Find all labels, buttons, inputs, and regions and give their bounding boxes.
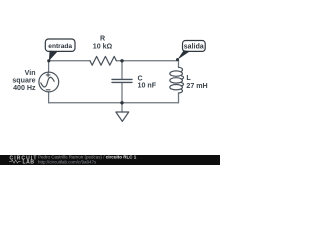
inductor L1 coil — [170, 67, 184, 93]
wire top rail left (node to resistor) — [49, 60, 90, 62]
svg-text:entrada: entrada — [48, 43, 72, 50]
svg-text:10 nF: 10 nF — [138, 82, 157, 90]
ground symbol — [116, 112, 129, 121]
svg-text:LAB: LAB — [23, 159, 35, 165]
svg-text:salida: salida — [184, 43, 204, 50]
capacitor C1 plates — [112, 79, 132, 82]
node junction bottom (capacitor/bottom rail) — [120, 101, 123, 104]
voltage source sine wave — [40, 77, 54, 88]
wire capacitor branch top — [121, 61, 123, 79]
wire right branch top — [178, 61, 180, 68]
footer bar — [0, 155, 220, 165]
wire top rail right (resistor to corner) — [116, 60, 178, 62]
wire left branch top — [48, 61, 50, 72]
wire capacitor branch bottom — [121, 83, 123, 103]
svg-text:http://circuitlab.com/c/9a847s: http://circuitlab.com/c/9a847s — [38, 159, 97, 164]
svg-text:R: R — [100, 35, 105, 43]
wire left branch bottom — [48, 92, 50, 103]
svg-text:27 mH: 27 mH — [186, 82, 207, 90]
footer CircuitLab logo — [9, 156, 37, 166]
node entrada tip dot — [47, 59, 50, 62]
voltage source minus sign — [46, 89, 50, 91]
node junction top (capacitor/top rail) — [120, 59, 123, 62]
svg-text:400 Hz: 400 Hz — [13, 84, 36, 92]
wire bottom rail — [49, 102, 179, 104]
callout salida box — [183, 41, 206, 52]
voltage source V1 circle — [39, 72, 59, 92]
wire right branch bottom — [178, 93, 180, 103]
callout entrada box — [45, 39, 75, 51]
svg-text:10 kΩ: 10 kΩ — [93, 43, 113, 51]
wire ground stem — [121, 103, 123, 112]
label V1 name/value: Vin square 400 Hz — [12, 69, 36, 92]
callout entrada pointer — [49, 51, 58, 61]
svg-text:L: L — [186, 74, 191, 82]
resistor R1 zigzag — [90, 56, 116, 65]
node salida tip dot — [176, 58, 179, 61]
callout salida pointer — [177, 50, 190, 60]
voltage source plus sign — [46, 73, 50, 77]
